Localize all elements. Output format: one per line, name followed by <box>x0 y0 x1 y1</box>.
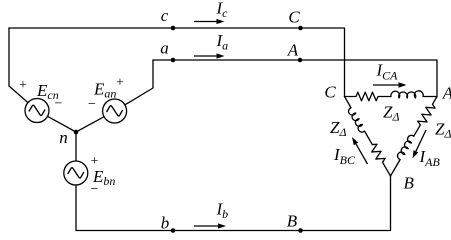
node a <box>171 58 176 63</box>
svg-text:IBC: IBC <box>333 145 356 167</box>
current arrow IBC <box>352 137 368 164</box>
current arrow ICA <box>373 82 407 87</box>
source Ecn <box>25 99 49 123</box>
current arrow Ia <box>194 53 225 58</box>
impedance Z delta top (resistor + inductor) C to A <box>345 91 438 101</box>
wire diagonal to Ecn <box>9 86 28 103</box>
svg-text:b: b <box>161 214 170 233</box>
current arrow IAB <box>413 130 427 159</box>
svg-text:−: − <box>55 97 63 112</box>
svg-text:+: + <box>91 154 99 169</box>
wire top line c to C to delta corner <box>9 28 345 97</box>
source Ebn <box>64 161 88 185</box>
impedance Z delta right (resistor + inductor) A to B <box>386 94 440 178</box>
svg-text:A: A <box>442 84 451 103</box>
wire Ebn to bottom line <box>75 185 77 231</box>
svg-text:Ic: Ic <box>216 0 229 20</box>
svg-text:Ean: Ean <box>93 80 116 101</box>
node B (bottom line) <box>298 228 303 233</box>
svg-text:C: C <box>288 8 300 27</box>
node C <box>298 26 303 31</box>
node b <box>171 228 176 233</box>
current arrow Ib <box>194 223 226 228</box>
svg-text:ZΔ: ZΔ <box>435 120 451 141</box>
node A <box>298 58 303 63</box>
svg-text:A: A <box>287 41 299 60</box>
svg-text:IAB: IAB <box>419 147 441 169</box>
svg-text:−: − <box>88 97 96 112</box>
svg-text:n: n <box>59 128 68 147</box>
svg-text:Ib: Ib <box>216 200 229 222</box>
svg-text:+: + <box>19 78 27 93</box>
svg-text:−: − <box>91 182 99 197</box>
wire node n to Ean <box>76 117 104 132</box>
svg-text:ZΔ: ZΔ <box>330 118 347 139</box>
source Ean <box>103 99 127 123</box>
svg-text:B: B <box>404 174 415 193</box>
wire node n down to Ebn <box>75 132 77 161</box>
current arrow Ic <box>194 19 225 24</box>
impedance Z delta left (inductor + resistor) C to B <box>340 94 394 178</box>
svg-text:+: + <box>116 76 124 91</box>
wire bottom line b to B to delta corner <box>76 176 391 231</box>
svg-text:Ia: Ia <box>216 31 229 53</box>
wire Ecn to node n <box>48 116 77 132</box>
svg-text:C: C <box>324 83 336 102</box>
svg-text:ZΔ: ZΔ <box>383 103 400 124</box>
svg-text:B: B <box>287 212 298 231</box>
svg-text:ICA: ICA <box>376 61 399 83</box>
wire Ean to a-line <box>125 60 153 105</box>
svg-text:a: a <box>160 39 169 58</box>
node c <box>171 26 176 31</box>
wire a line to A to delta corner <box>153 60 437 97</box>
svg-text:c: c <box>161 6 169 25</box>
node n junction dot <box>74 130 79 135</box>
wire left vertical from top line <box>8 28 10 86</box>
